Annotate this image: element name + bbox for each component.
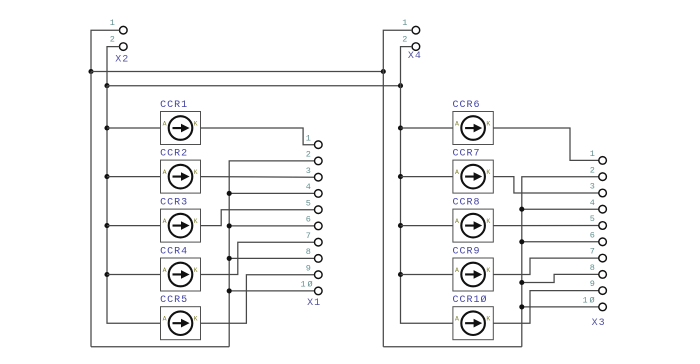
CCR3 current arrow <box>173 221 190 230</box>
svg-text:1Ø: 1Ø <box>300 280 314 290</box>
junction return rail / X3 pin 6 <box>519 239 524 244</box>
wire left even-pin rail <box>229 161 314 347</box>
svg-text:K: K <box>194 169 198 176</box>
connector X4 pin 2 <box>412 43 420 51</box>
svg-text:X2: X2 <box>115 55 129 66</box>
svg-text:A: A <box>163 316 167 323</box>
CCR8 current arrow <box>465 221 482 230</box>
wire CCR2 K to X1 pin 3 <box>201 176 315 179</box>
junction return rail / X3 pin 4 <box>519 207 524 212</box>
connector X1 pin 5 <box>315 206 323 214</box>
junction left anode rail / H2 rail <box>104 83 109 88</box>
junction return rail / X3 pin 8 <box>519 280 524 285</box>
svg-text:4: 4 <box>306 182 311 192</box>
svg-text:CCR3: CCR3 <box>160 198 188 209</box>
wire X1 pin 4 to return rail <box>229 192 314 194</box>
CCR2 current arrow <box>173 172 190 181</box>
svg-text:K: K <box>194 218 198 225</box>
svg-text:A: A <box>455 218 459 225</box>
svg-text:CCR9: CCR9 <box>453 247 481 258</box>
svg-text:CCR6: CCR6 <box>453 100 481 111</box>
junction anode rail / CCR2 branch <box>104 174 109 179</box>
CCR10 current arrow <box>465 319 482 328</box>
wire H2 rail (anode net, left to right block) <box>107 85 401 87</box>
svg-text:X3: X3 <box>592 318 606 329</box>
wire anode branch to CCR4 <box>107 274 161 276</box>
svg-text:A: A <box>455 120 459 127</box>
wire anode branch to CCR8 <box>401 225 453 227</box>
svg-text:A: A <box>163 267 167 274</box>
junction anode rail / CCR6 branch <box>398 125 403 130</box>
connector X1 pin 7 <box>315 238 323 246</box>
svg-text:K: K <box>194 120 198 127</box>
wire CCR8 K to X3 pin 5 <box>493 225 599 227</box>
connector X1 pin 9 <box>315 271 323 279</box>
connector X3 pin 8 <box>599 271 607 279</box>
current regulator CCR7 body <box>453 160 493 193</box>
junction anode rail / CCR1 branch <box>104 125 109 130</box>
svg-text:K: K <box>194 267 198 274</box>
connector X3 pin 2 <box>599 173 607 181</box>
svg-text:1: 1 <box>110 18 115 28</box>
junction anode rail / CCR8 branch <box>398 223 403 228</box>
junction anode rail / CCR3 branch <box>104 223 109 228</box>
svg-text:5: 5 <box>590 214 595 224</box>
junction anode rail / CCR7 branch <box>398 174 403 179</box>
connector X1 pin 4 <box>315 190 323 198</box>
svg-text:K: K <box>486 218 490 225</box>
connector X3 pin 3 <box>599 189 607 197</box>
current regulator CCR10 body <box>453 307 493 340</box>
wire CCR5 K to X1 pin 9 <box>201 275 315 324</box>
wire anode branch to CCR9 <box>401 274 453 276</box>
svg-text:CCR4: CCR4 <box>160 247 188 258</box>
junction return rail / X1 pin 6 <box>227 223 232 228</box>
wire CCR9 K to X3 pin 7 <box>493 258 599 274</box>
wire X1 pin 10 to return rail <box>229 290 314 292</box>
CCR8 circle <box>461 214 485 238</box>
wire CCR3 K to X1 pin 5 <box>201 210 315 226</box>
svg-text:8: 8 <box>590 263 595 273</box>
current regulator CCR8 body <box>453 209 493 242</box>
wire anode branch to CCR2 <box>107 176 161 178</box>
junction anode rail / CCR9 branch <box>398 272 403 277</box>
current regulator CCR3 body <box>161 209 201 242</box>
svg-text:2: 2 <box>590 165 595 175</box>
junction return rail / X1 pin 4 <box>227 191 232 196</box>
CCR10 circle <box>461 311 485 335</box>
wire X4 pin 1 to right outer rail <box>383 30 412 71</box>
junction H2 rail / right anode rail <box>398 83 403 88</box>
junction left outer rail / H1 rail <box>88 69 93 74</box>
wire X3 pin 4 to return rail <box>522 208 599 210</box>
svg-text:K: K <box>486 120 490 127</box>
junction H1 rail / right outer rail <box>381 69 386 74</box>
svg-text:A: A <box>163 218 167 225</box>
junction anode rail / CCR4 branch <box>104 272 109 277</box>
wire X3 pin 10 to return rail <box>522 306 599 308</box>
CCR5 current arrow <box>173 319 190 328</box>
connector X2 pin 1 <box>120 26 128 34</box>
wire X2 pin 2 to anode rail <box>107 47 120 86</box>
CCR9 circle <box>461 263 485 287</box>
svg-text:K: K <box>486 316 490 323</box>
svg-text:1: 1 <box>306 133 311 143</box>
svg-text:CCR8: CCR8 <box>453 198 481 209</box>
current regulator CCR5 body <box>161 307 201 340</box>
connector X3 pin 1 <box>599 157 607 165</box>
svg-text:A: A <box>163 120 167 127</box>
svg-text:4: 4 <box>590 198 595 208</box>
CCR6 circle <box>461 116 485 140</box>
svg-text:A: A <box>455 267 459 274</box>
CCR1 circle <box>169 116 193 140</box>
svg-text:X1: X1 <box>307 298 321 309</box>
svg-text:A: A <box>455 169 459 176</box>
connector X1 pin 2 <box>315 157 323 165</box>
wire CCR4 K to X1 pin 7 <box>201 242 315 274</box>
svg-text:A: A <box>163 169 167 176</box>
junction return rail / X1 pin 10 <box>227 288 232 293</box>
svg-text:5: 5 <box>306 198 311 208</box>
connector X3 pin 7 <box>599 254 607 262</box>
svg-text:8: 8 <box>306 247 311 257</box>
connector X3 pin 6 <box>599 238 607 246</box>
CCR6 current arrow <box>465 124 482 133</box>
CCR3 circle <box>169 214 193 238</box>
CCR9 current arrow <box>465 270 482 279</box>
wire CCR7 K to X3 pin 3 <box>493 177 599 193</box>
connector X2 pin 2 <box>120 43 128 51</box>
wire anode branch to CCR1 <box>107 127 161 129</box>
svg-text:6: 6 <box>590 230 595 240</box>
svg-text:2: 2 <box>402 34 407 44</box>
connector X1 pin 3 <box>315 173 323 181</box>
wire right even-pin rail <box>522 177 599 347</box>
svg-text:7: 7 <box>306 231 311 241</box>
CCR5 circle <box>169 311 193 335</box>
wire anode branch to CCR7 <box>401 176 453 178</box>
CCR4 current arrow <box>173 270 190 279</box>
svg-text:1Ø: 1Ø <box>582 296 596 306</box>
wire X3 pin 8 to return rail (zigzag) <box>522 274 599 282</box>
svg-text:K: K <box>194 316 198 323</box>
connector X3 pin 5 <box>599 222 607 230</box>
svg-text:2: 2 <box>110 34 115 44</box>
wire anode branch to CCR6 <box>401 127 453 129</box>
wire X1 pin 8 to return rail <box>229 257 314 259</box>
wire right outer rail down <box>382 72 384 347</box>
wire H1 rail (return net, left to right block) <box>91 71 383 73</box>
connector X3 pin 10 <box>599 303 607 311</box>
svg-text:CCR7: CCR7 <box>453 149 481 160</box>
wire CCR6 K to X3 pin 1 <box>493 128 599 160</box>
svg-text:CCR1Ø: CCR1Ø <box>453 294 488 306</box>
wire X3 pin 6 to return rail <box>522 241 599 243</box>
svg-text:6: 6 <box>306 215 311 225</box>
wire left bottom return rail <box>91 346 229 348</box>
junction return rail / X3 pin 10 <box>519 304 524 309</box>
svg-text:1: 1 <box>402 18 407 28</box>
connector X3 pin 9 <box>599 287 607 295</box>
connector X3 pin 4 <box>599 205 607 213</box>
svg-text:CCR5: CCR5 <box>160 295 188 306</box>
CCR7 circle <box>461 165 485 189</box>
wire CCR10 K to X3 pin 9 <box>493 291 599 324</box>
svg-text:1: 1 <box>590 149 595 159</box>
wire CCR1 K to X1 pin 1 <box>201 128 315 145</box>
wire left anode rail down <box>107 86 161 324</box>
CCR2 circle <box>169 165 193 189</box>
svg-text:2: 2 <box>306 150 311 160</box>
connector X1 pin 8 <box>315 255 323 263</box>
svg-text:K: K <box>486 267 490 274</box>
CCR7 current arrow <box>465 172 482 181</box>
svg-text:9: 9 <box>306 263 311 273</box>
current regulator CCR2 body <box>161 160 201 193</box>
connector X1 pin 10 <box>315 287 323 295</box>
svg-text:A: A <box>455 316 459 323</box>
connector X1 pin 1 <box>315 141 323 149</box>
current regulator CCR9 body <box>453 258 493 291</box>
wire anode branch to CCR3 <box>107 225 161 227</box>
svg-text:7: 7 <box>590 247 595 257</box>
connector X4 pin 1 <box>412 26 420 34</box>
wire X2 pin 1 to cathode-return net <box>91 30 120 71</box>
connector X1 pin 6 <box>315 222 323 230</box>
current regulator CCR1 body <box>161 112 201 145</box>
wire X1 pin 6 to return rail <box>229 225 314 227</box>
svg-text:3: 3 <box>306 166 311 176</box>
svg-text:K: K <box>486 169 490 176</box>
wire X4 pin 2 to right anode rail <box>401 47 413 86</box>
CCR4 circle <box>169 263 193 287</box>
svg-text:CCR2: CCR2 <box>160 149 188 160</box>
wire right anode rail down <box>401 86 453 324</box>
wire right bottom return rail <box>383 346 522 348</box>
svg-text:3: 3 <box>590 182 595 192</box>
current regulator CCR6 body <box>453 112 493 145</box>
svg-text:X4: X4 <box>408 51 422 62</box>
junction return rail / X1 pin 8 <box>227 256 232 261</box>
wire left outer rail down <box>90 72 92 347</box>
current regulator CCR4 body <box>161 258 201 291</box>
svg-text:9: 9 <box>590 279 595 289</box>
svg-text:CCR1: CCR1 <box>160 100 188 111</box>
CCR1 current arrow <box>173 124 190 133</box>
